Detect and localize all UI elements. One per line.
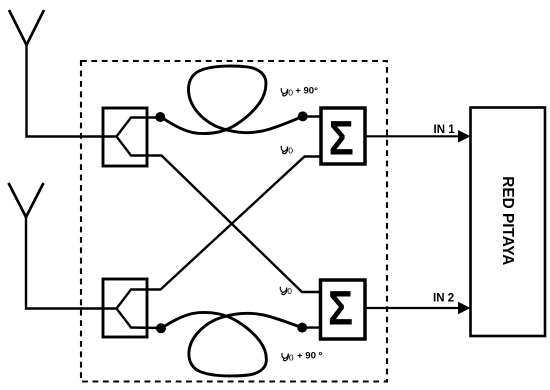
svg-text:RED PITAYA: RED PITAYA: [499, 176, 516, 265]
svg-text:0: 0: [288, 88, 293, 98]
wire ANT1 feed: [27, 44, 118, 137]
summer U2: [321, 280, 366, 339]
svg-text:0: 0: [288, 145, 293, 155]
node dot top-left: [155, 112, 165, 122]
svg-text:IN 2: IN 2: [433, 293, 454, 305]
summer U1: [321, 108, 365, 164]
wire to sigma1 top input: [303, 115, 321, 117]
svg-text:Σ: Σ: [328, 283, 353, 336]
antenna ANT2: [9, 183, 44, 217]
label phi0+90 top: [281, 88, 287, 96]
wire to sigma2 bottom input: [302, 326, 320, 328]
svg-text:+ 90 º: + 90 º: [297, 350, 323, 361]
delay loop L2 (phi0+90): [161, 312, 302, 375]
node dot top-right: [298, 111, 308, 121]
antenna ANT1: [9, 10, 44, 45]
wire S1 top branch: [117, 118, 161, 137]
delay loop L1 (phi0+90): [160, 66, 302, 134]
wire S1 bottom branch (phi0 to sigma2): [117, 137, 322, 293]
svg-text:Σ: Σ: [329, 112, 354, 165]
wire IN2 arrow: [365, 307, 459, 309]
splitter S2: [103, 279, 147, 337]
wire IN1 arrow: [365, 135, 459, 137]
Red Pitaya box: [471, 108, 546, 337]
wire ANT2 feed: [26, 216, 117, 309]
svg-text:IN 1: IN 1: [434, 124, 456, 136]
dashed enclosure box: [81, 61, 387, 382]
label phi0 mid-top: [281, 146, 287, 154]
svg-text:+ 90°: + 90°: [295, 86, 318, 97]
wire S2 bottom branch: [117, 309, 162, 329]
label phi0 mid-bottom: [280, 287, 286, 295]
node dot bottom-left: [156, 323, 166, 333]
svg-text:0: 0: [287, 286, 292, 296]
wire S2 top branch (phi0 to sigma1): [117, 157, 322, 309]
svg-text:0: 0: [289, 352, 294, 362]
node dot bottom-right: [297, 323, 307, 333]
label phi0+90 bottom: [282, 353, 288, 361]
splitter S1: [103, 108, 147, 166]
